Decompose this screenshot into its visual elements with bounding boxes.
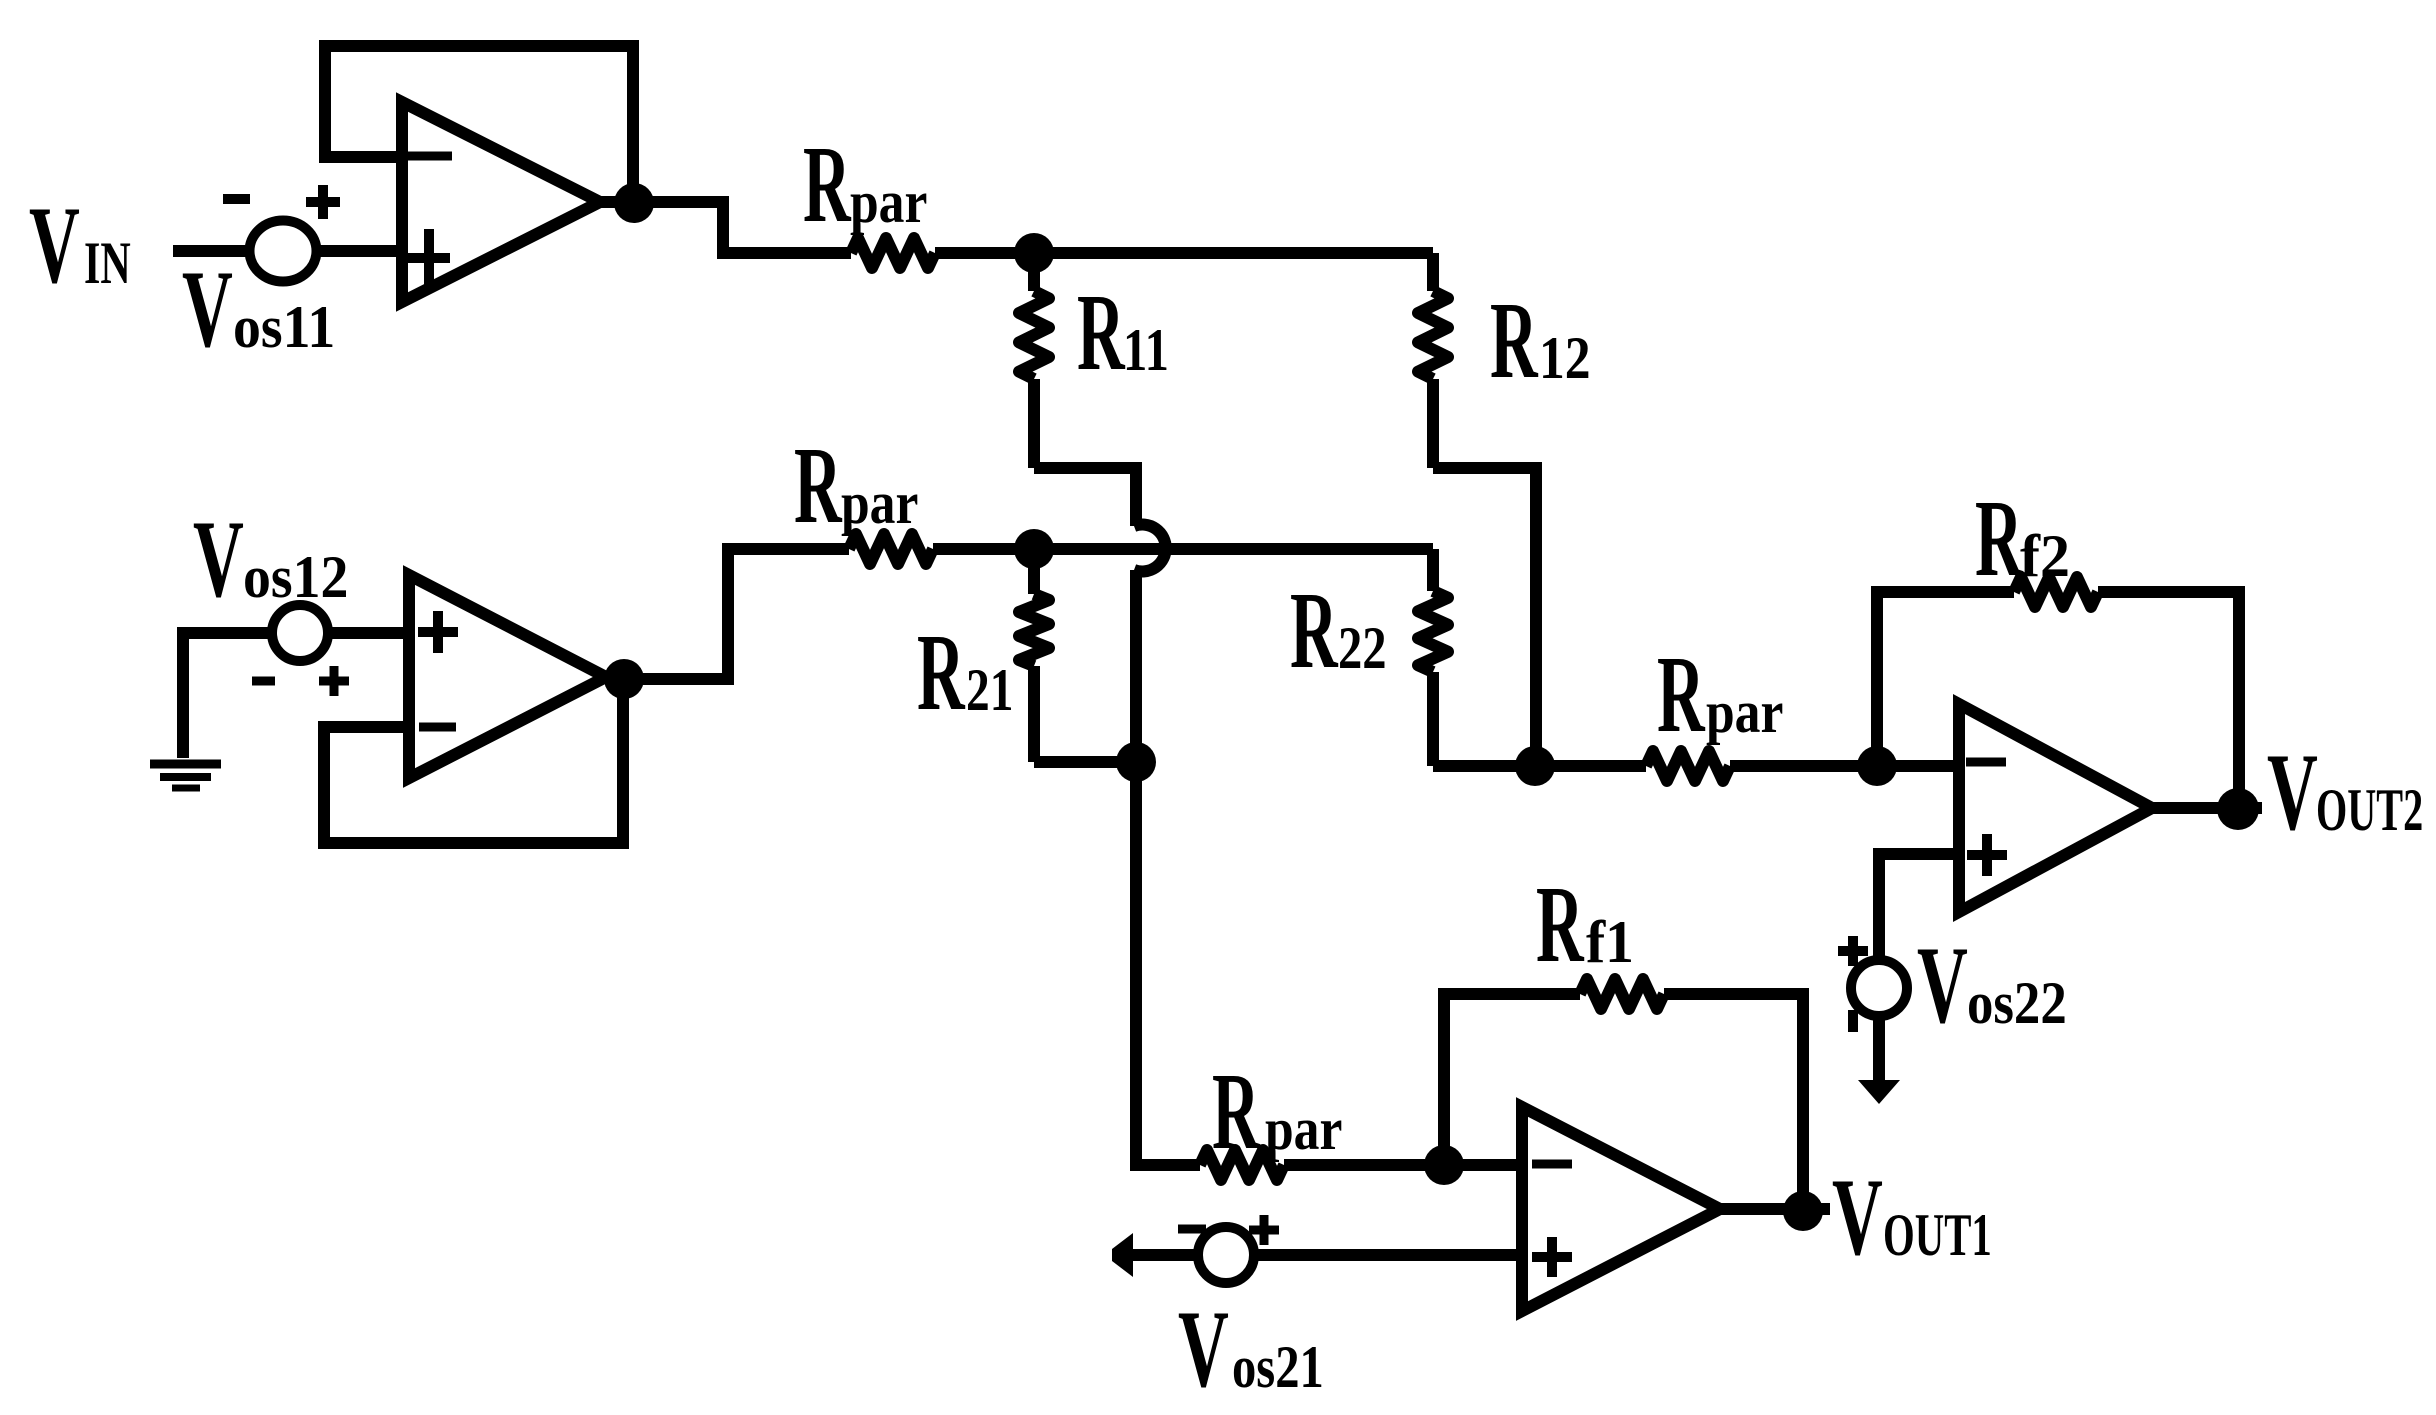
wire Vos12 to ground corner: [183, 633, 300, 758]
op-amp U1: [402, 102, 600, 302]
svg-text:f2: f2: [2020, 523, 2070, 589]
svg-text:par: par: [850, 169, 927, 235]
svg-text:os22: os22: [1967, 971, 2067, 1037]
wire node D to Rpar: [1136, 762, 1200, 1165]
svg-text:par: par: [1265, 1096, 1342, 1162]
wire R21 to node D: [1034, 756, 1136, 768]
wire node E to U3 inverting input: [1877, 760, 1959, 772]
svg-text:os21: os21: [1232, 1333, 1324, 1400]
wire crossover hop over bus: [1134, 524, 1166, 762]
svg-text:V: V: [193, 498, 244, 619]
resistor Rpar (to U4): [1200, 1150, 1284, 1180]
node D: [1116, 742, 1156, 782]
svg-text:11: 11: [1123, 316, 1169, 383]
voltage source Vos11: [223, 185, 340, 282]
svg-text:IN: IN: [84, 231, 131, 297]
resistor R21: [1028, 549, 1040, 594]
wire U1 feedback loop: [325, 46, 633, 203]
wire node B to Rpar: [1535, 760, 1646, 772]
wire U2 feedback loop: [324, 679, 623, 843]
wire Rpar to node A: [935, 247, 1034, 259]
wire Rf1 to VOUT1: [1664, 994, 1803, 1211]
wire R11 to crossover: [1034, 468, 1136, 526]
arrow terminal on Vos21 lead: [1112, 1233, 1133, 1277]
node A: [1014, 233, 1054, 273]
svg-text:R: R: [1975, 477, 2024, 599]
resistor Rpar (from U1): [851, 238, 935, 268]
resistor R22: [1427, 549, 1439, 591]
wire U2 output to Rpar: [606, 549, 849, 679]
svg-text:V: V: [182, 248, 233, 369]
wire node E to Rf2: [1877, 592, 2014, 766]
resistor R12: [1427, 253, 1439, 291]
node F: [1424, 1145, 1464, 1185]
svg-text:V: V: [1832, 1156, 1883, 1277]
svg-text:R: R: [1077, 271, 1126, 393]
node C: [1014, 529, 1054, 569]
node U1 output: [614, 183, 654, 223]
wire Vos22 to ground: [1873, 1016, 1885, 1085]
voltage source Vos12: [252, 605, 349, 696]
svg-text:V: V: [1178, 1288, 1229, 1409]
svg-text:R: R: [1490, 279, 1539, 401]
svg-text:21: 21: [966, 657, 1013, 724]
svg-text:R: R: [794, 424, 843, 546]
svg-text:OUT1: OUT1: [1883, 1202, 1992, 1269]
wire U1 output to Rpar: [600, 202, 851, 253]
svg-text:OUT2: OUT2: [2316, 777, 2423, 844]
svg-text:R: R: [1657, 633, 1706, 755]
svg-text:R: R: [803, 123, 852, 245]
ground (arrow, Vos22): [1858, 1080, 1900, 1104]
wire Rpar to node C: [933, 543, 1034, 555]
svg-text:R: R: [917, 611, 966, 733]
wire U4 output: [1720, 1203, 1830, 1215]
wire U3 noninverting input to Vos22: [1879, 854, 1959, 956]
svg-text:V: V: [29, 184, 80, 305]
svg-text:22: 22: [1338, 614, 1387, 681]
svg-text:12: 12: [1539, 325, 1591, 391]
node U2 output: [604, 659, 644, 699]
wire R22 to node B: [1433, 760, 1535, 772]
svg-text:R: R: [1212, 1050, 1261, 1172]
svg-text:R: R: [1536, 863, 1585, 985]
svg-text:f1: f1: [1586, 909, 1634, 975]
resistor Rpar (from U2): [849, 534, 933, 564]
wire Rpar to node E: [1730, 760, 1877, 772]
ground (Vos12): [150, 764, 221, 788]
wire VIN to Vos11 to U1 noninverting input: [173, 245, 402, 257]
svg-text:os12: os12: [243, 543, 348, 610]
node VOUT1: [1783, 1191, 1823, 1231]
wire node F to Rf1: [1444, 994, 1580, 1165]
wire Rf2 to VOUT2: [2098, 592, 2239, 809]
wire U3 output: [2152, 802, 2262, 814]
resistor R11: [1028, 253, 1040, 291]
wire Vos21 to U4 noninverting input: [1130, 1249, 1522, 1261]
node B: [1515, 746, 1555, 786]
op-amp U2: [409, 575, 606, 778]
wire node C to R22 (bus under crossover): [1034, 543, 1433, 555]
resistor Rf1: [1580, 979, 1664, 1009]
wire node F to U4 inverting input: [1444, 1159, 1522, 1171]
svg-text:par: par: [1706, 679, 1783, 745]
voltage source Vos22: [1838, 936, 1907, 1032]
wire node A to R12: [1034, 247, 1433, 259]
svg-text:V: V: [2267, 731, 2318, 852]
wire R12 to node B: [1433, 468, 1536, 766]
op-amp U4: [1522, 1107, 1720, 1311]
node E: [1857, 746, 1897, 786]
node VOUT2: [2217, 788, 2259, 830]
voltage source Vos21: [1178, 1215, 1279, 1283]
op-amp U3: [1959, 704, 2152, 912]
svg-text:par: par: [841, 470, 918, 536]
svg-text:R: R: [1290, 569, 1339, 691]
svg-text:os11: os11: [233, 293, 335, 360]
svg-text:V: V: [1917, 924, 1968, 1045]
resistor Rpar (to U3): [1646, 751, 1730, 781]
wire Rpar to node F: [1284, 1159, 1444, 1171]
resistor Rf2: [2014, 577, 2098, 607]
wire Vos12 to U2 noninverting input: [328, 627, 409, 639]
